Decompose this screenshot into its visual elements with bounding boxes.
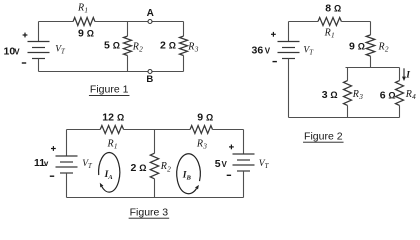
resistor R2 (2 ohm), figure 3 [154,130,156,154]
wire: fig2 left column top segment [288,22,290,42]
wire: fig3 right column bottom segment [243,171,245,198]
wire: fig3 right column top segment [243,130,245,155]
wire: fig3 left column bottom segment [66,173,68,198]
resistor R1 (8 ohm), figure 2 [318,18,341,26]
wire: fig1 top rail right of R1 to R3 branch [95,21,184,23]
wire: fig3 top rail left of R1 [67,129,101,131]
resistor R4 (6 ohm), figure 2 [399,68,401,81]
wire: fig1 left column top segment [38,22,40,42]
label + (fig3 right battery positive) [229,146,234,148]
svg-text:3Ω: 3Ω [322,89,338,101]
svg-text:2Ω: 2Ω [131,162,147,174]
resistor R2 (9 ohm), figure 2: top stub, zigzag, bottom stub [370,22,372,35]
resistor R3 (2 ohm), figure 1: right branch [183,22,185,37]
label - (fig1 battery negative) [22,62,26,64]
label - (fig2 battery negative) [273,61,277,63]
wire: fig2 top rail left of R1 [289,21,319,23]
mesh current loop IB (counterclockwise) [177,154,201,194]
svg-text:36V: 36V [252,44,271,56]
svg-text:I: I [405,71,410,81]
svg-text:9Ω: 9Ω [78,28,94,40]
label + (fig1 battery positive) [23,34,28,36]
svg-text:9Ω: 9Ω [197,111,213,123]
wire: fig3 left column top segment [66,130,68,157]
wire: fig3 bottom rail [67,197,244,199]
svg-text:B: B [146,74,153,85]
node B terminal circle [148,70,152,74]
label - (fig3 left battery negative) [50,175,54,177]
battery VT (5 V source), figure 3 right [233,153,255,155]
svg-text:Figure 1: Figure 1 [90,84,129,96]
wire: fig2 middle rail [346,67,400,69]
resistor R1 (12 ohm), figure 3 [100,126,123,134]
svg-text:5Ω: 5Ω [104,40,120,52]
svg-text:A: A [147,8,154,19]
wire: fig1 left column bottom segment [38,59,40,72]
svg-text:11v: 11v [34,157,49,169]
label - (fig3 right battery negative) [227,174,231,176]
battery VT (11 V source), figure 3 left [56,155,78,157]
label + (fig3 left battery positive) [51,148,56,150]
svg-text:2Ω: 2Ω [160,40,176,52]
wire: fig1 bottom rail [39,71,184,73]
svg-text:Figure 2: Figure 2 [304,130,343,142]
resistor R3 (9 ohm), figure 3 [190,126,212,134]
svg-text:8Ω: 8Ω [325,3,341,15]
wire: fig3 top rail between R1 and R3 [124,129,191,131]
mesh current loop IA (clockwise) [99,153,120,193]
resistor R2 (5 ohm), figure 1: top stub, zigzag, bottom stub [127,22,129,37]
svg-text:6Ω: 6Ω [380,89,396,101]
wire: fig2 bottom rail [289,117,400,119]
wire: fig3 top rail right of R3 [213,129,244,131]
wire: fig2 top rail right of R1 [341,21,370,23]
battery VT (36 V source), figure 2 [278,41,300,43]
wire: fig2 left column bottom segment [288,59,290,118]
resistor R3 (3 ohm), figure 2 [347,68,349,81]
svg-text:10V: 10V [4,46,21,58]
svg-text:Figure 3: Figure 3 [130,206,169,218]
wire: fig1 top rail left of R1 [39,21,74,23]
svg-text:9Ω: 9Ω [349,41,365,53]
battery VT (10 V source), figure 1 [28,41,50,43]
svg-text:12Ω: 12Ω [102,112,124,124]
svg-text:5V: 5V [215,158,228,170]
label + (fig2 battery positive) [271,33,276,35]
node A terminal circle [148,20,152,24]
resistor R1 (9 ohm), figure 1 [73,18,95,26]
current arrow I (fig2, into R4 branch) [403,68,405,77]
